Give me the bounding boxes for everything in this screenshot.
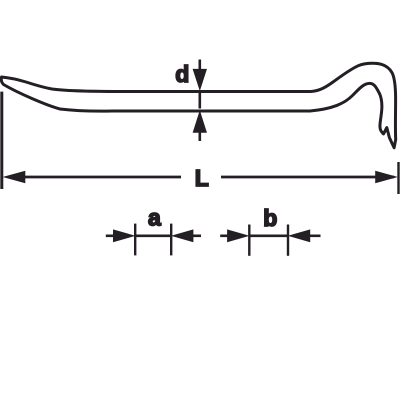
dimension L: left horizontal segment (22, 176, 181, 179)
dimension L: right arrowhead (376, 171, 396, 182)
dimension L: left arrowhead (5, 171, 25, 182)
dimension d: middle segment between bar edges (199, 93, 202, 109)
dimension L: left extension line (2, 92, 399, 194)
dimension b: right tick (287, 225, 289, 256)
svg-text:L: L (195, 165, 209, 191)
dimension d: lower arrowhead (points up to bar bottom edge) (193, 112, 206, 133)
dimension a: right arrowhead (points left) (173, 230, 193, 242)
dimension b: right outside line (309, 235, 321, 238)
dimension a: left tick (134, 224, 136, 256)
dimension d: upper arrowhead (points down to bar top edge) (193, 69, 206, 89)
svg-text:b: b (263, 205, 277, 231)
svg-text:d: d (175, 61, 189, 87)
dimension b: left outside line (220, 225, 320, 256)
dimension b: left tick (248, 225, 250, 256)
wrecking bar outline (1, 63, 395, 148)
dimension d: upper extension segment (193, 60, 206, 142)
dimension b: right arrowhead (points left) (289, 230, 309, 242)
dimension a: right outside line (192, 235, 201, 238)
dimension b: left arrowhead (points right) (228, 230, 248, 242)
dimension d: lower stem (199, 132, 202, 141)
dimension a: right tick (170, 224, 172, 256)
dimension a: middle line (135, 235, 171, 238)
dimension L: right extension line (397, 162, 399, 194)
dimension b: middle line (249, 235, 288, 238)
dimension L: right horizontal segment (221, 176, 394, 179)
svg-text:a: a (148, 205, 161, 231)
dimension a: left arrowhead (points right) (114, 230, 134, 242)
dimension a: left outside line (106, 224, 201, 256)
